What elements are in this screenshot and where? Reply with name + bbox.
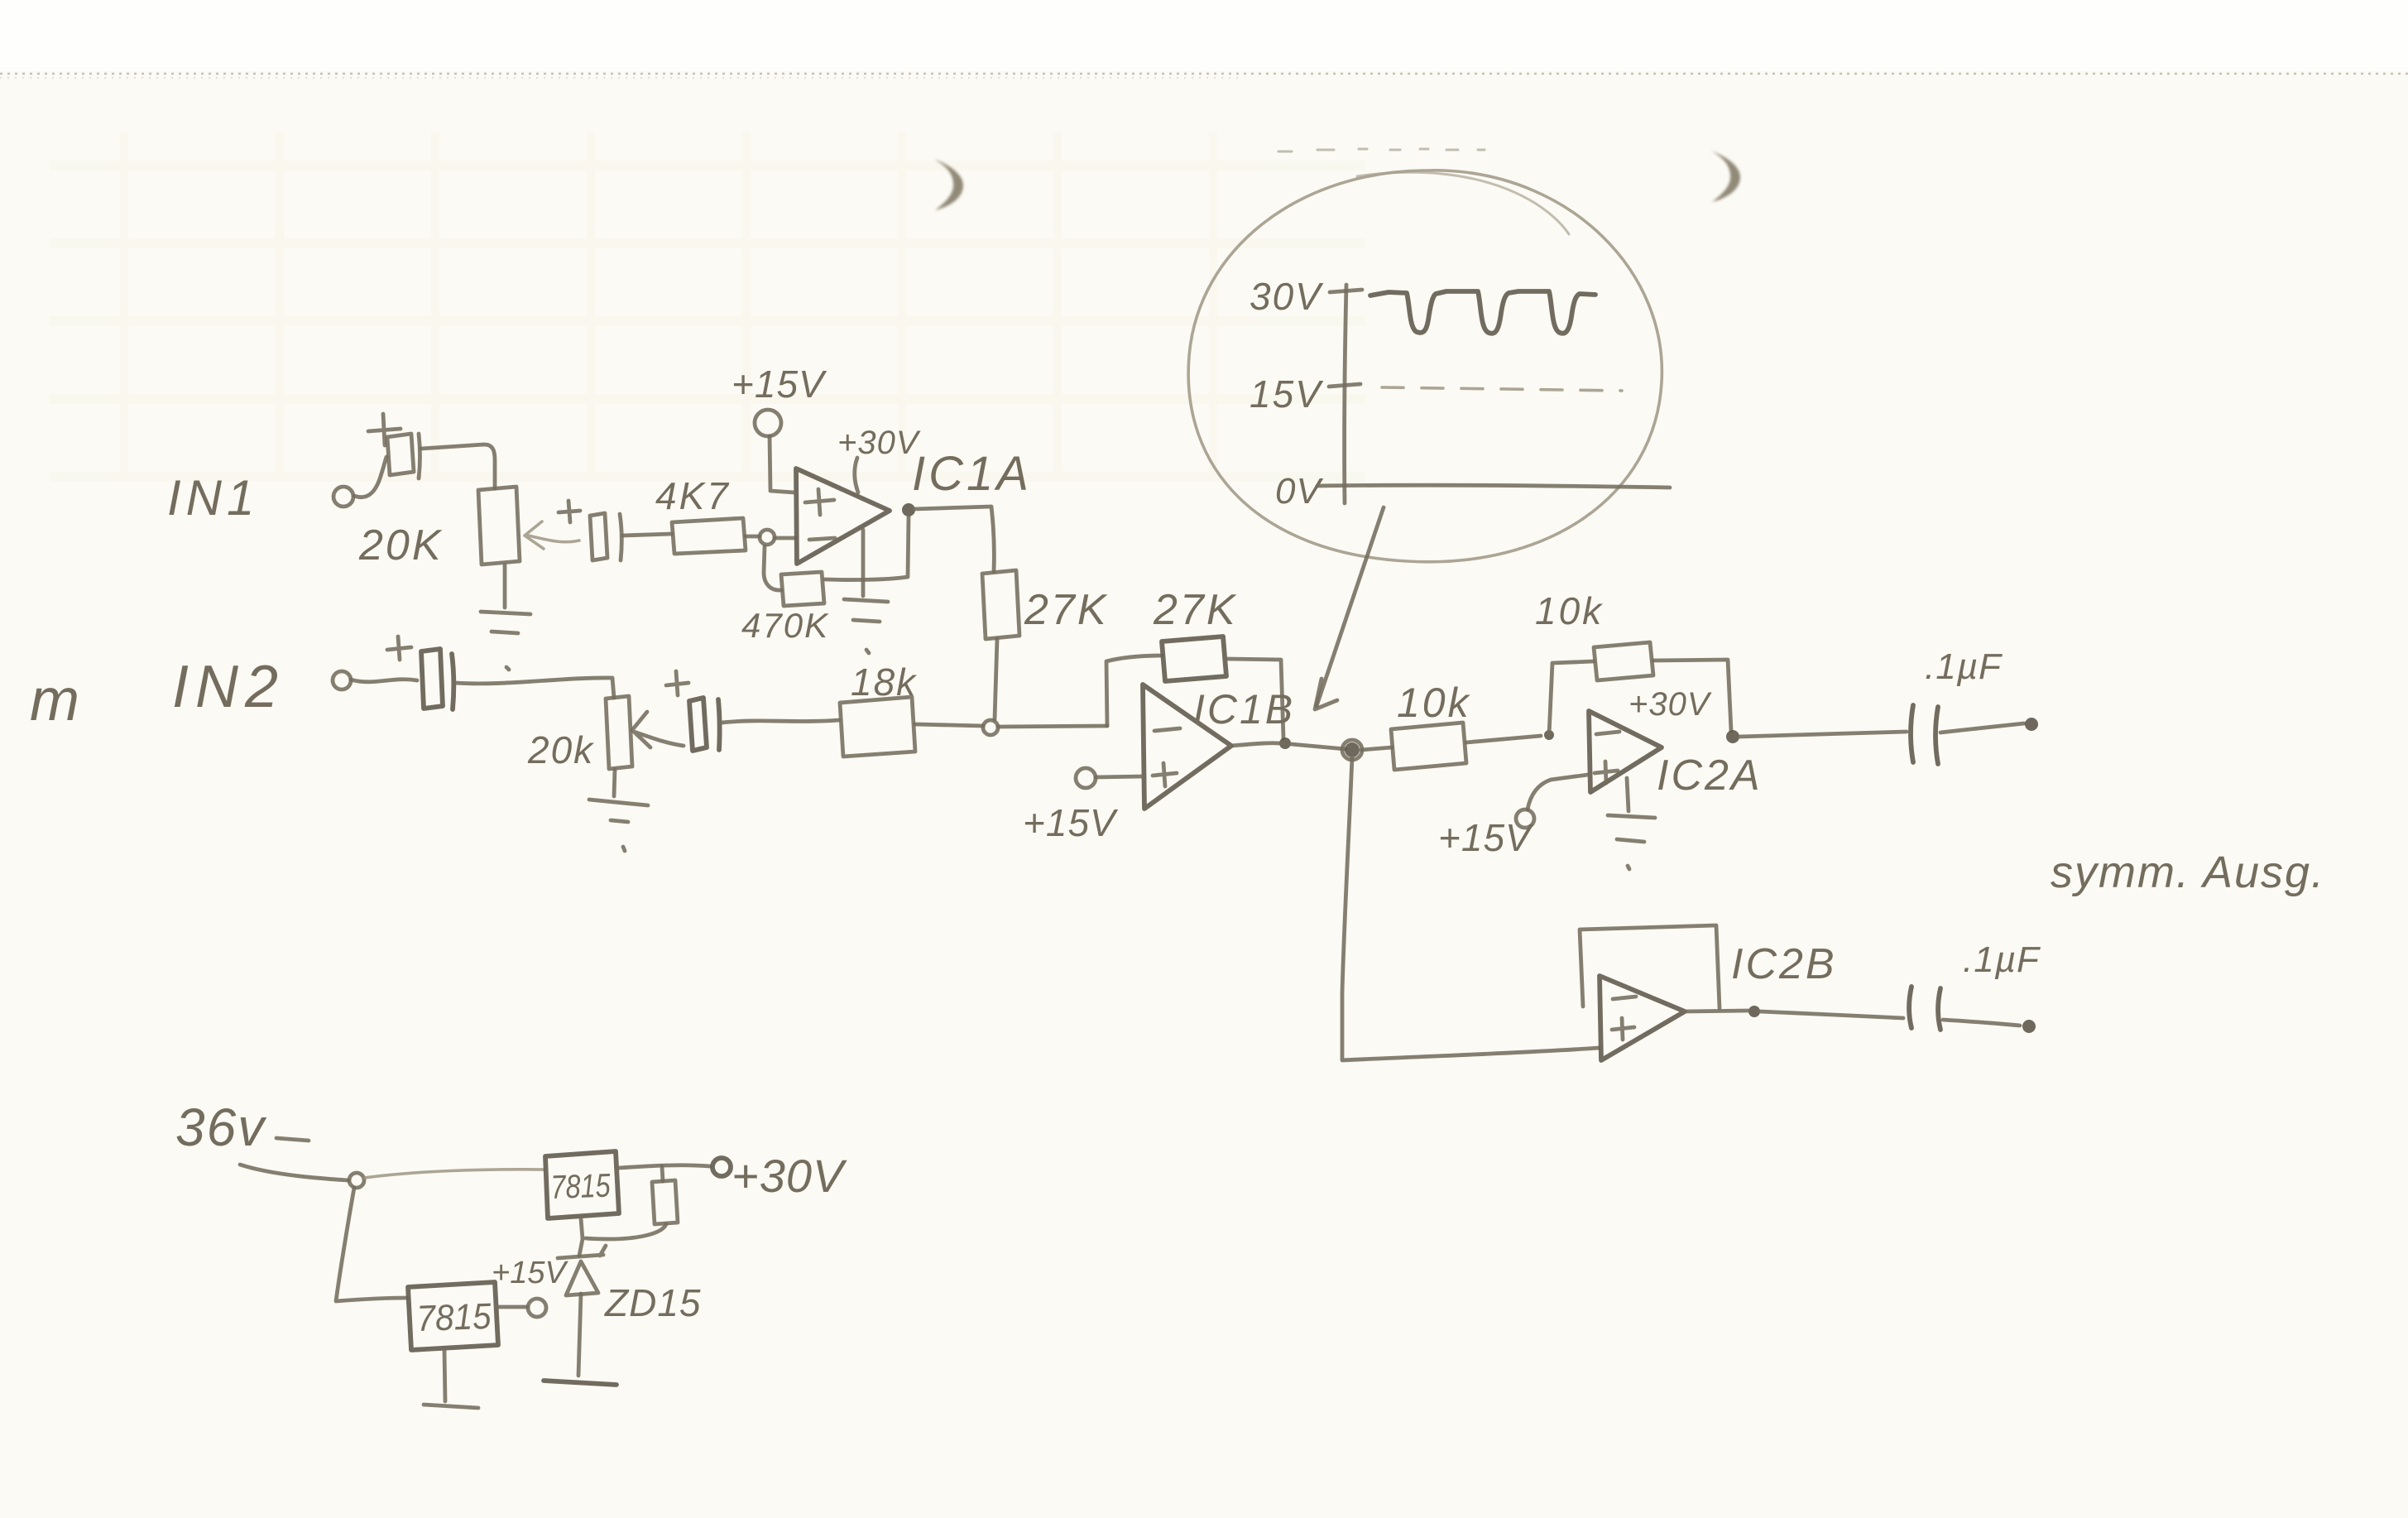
svg-text:4K7: 4K7 xyxy=(655,474,731,517)
+30V terminal xyxy=(712,1158,731,1176)
wire C4 to 18k xyxy=(722,720,839,723)
ground below IC2A xyxy=(1608,778,1655,869)
ground below P2 xyxy=(589,770,648,851)
resistor in 7815 ground lift xyxy=(652,1180,678,1224)
IC2B output node xyxy=(1748,1006,1760,1017)
wire node to 7815 no.1 xyxy=(364,1170,544,1178)
capacitor C1 plus sign xyxy=(368,414,401,445)
ground below P1 xyxy=(481,565,530,670)
wire +15V to IC1A xyxy=(770,436,794,492)
right punch hole xyxy=(1711,151,1740,202)
capacitor C4 xyxy=(689,698,720,751)
IC2A output node xyxy=(1726,730,1739,743)
IC1A minus input sign xyxy=(809,538,835,540)
wire 18k to summing node xyxy=(915,724,983,726)
svg-text:.1µF: .1µF xyxy=(1963,939,2041,980)
resistor 4K7 xyxy=(672,518,746,554)
svg-text:IN1: IN1 xyxy=(167,470,259,526)
svg-text:27K: 27K xyxy=(1153,586,1238,634)
7815 no.1 ground pin xyxy=(579,1218,583,1256)
op-amp IC2B xyxy=(1600,976,1685,1060)
PSU input node xyxy=(349,1173,364,1188)
wire 7815 no.1 to +30V terminal xyxy=(619,1165,710,1168)
IC2B feedback loop xyxy=(1580,925,1720,1008)
0V baseline xyxy=(1317,485,1670,488)
wire node to 10k xyxy=(1361,747,1392,750)
op-amp IC1A xyxy=(796,468,890,564)
svg-text:0V: 0V xyxy=(1275,471,1323,512)
wire 10k to IC2A xyxy=(1466,736,1541,742)
wire IN2 jack to cap xyxy=(351,680,417,682)
svg-text:30V: 30V xyxy=(1250,275,1324,318)
input jack IN2 terminal xyxy=(333,671,351,689)
wire 4K7 to inverting node xyxy=(746,535,760,539)
potentiometer P1 20K body xyxy=(478,487,520,564)
resistor 27K vertical xyxy=(982,570,1019,639)
IC2A plus input sign xyxy=(1595,761,1618,783)
regulator 7815 no.2 xyxy=(408,1282,498,1350)
IC1B plus input sign xyxy=(1153,763,1177,786)
svg-text:18k: 18k xyxy=(851,661,917,704)
svg-text:+15V: +15V xyxy=(732,363,827,406)
capacitor C4 plus sign xyxy=(666,671,688,695)
svg-text:10k: 10k xyxy=(1535,589,1604,632)
feedback resistor 27K IC1B xyxy=(1162,637,1226,681)
wire 7815 no.2 to +15V terminal xyxy=(498,1305,527,1309)
svg-text:470K: 470K xyxy=(741,606,829,645)
wire 36V to input node xyxy=(240,1165,348,1180)
svg-text:ZD15: ZD15 xyxy=(604,1281,701,1324)
wire main node down to IC2B xyxy=(1342,757,1599,1060)
15V dashed mean line xyxy=(1382,387,1622,391)
branch down to resistor xyxy=(662,1166,663,1181)
svg-text:36v: 36v xyxy=(175,1098,267,1157)
svg-text:IN2: IN2 xyxy=(172,654,285,720)
svg-text:IC2B: IC2B xyxy=(1731,940,1837,988)
svg-text:27K: 27K xyxy=(1024,586,1109,634)
wire +15V to IC1B plus input xyxy=(1096,776,1143,777)
P1 wiper arrow xyxy=(525,521,579,549)
IC1A plus input sign xyxy=(805,489,834,515)
+30V tick stroke xyxy=(855,458,858,492)
wire input node down to 7815 no.2 xyxy=(336,1188,407,1301)
wire C2 to 4K7 xyxy=(623,534,672,536)
waveform balloon (annotation circle) xyxy=(1188,171,1662,562)
wire 470K to inverting node xyxy=(764,546,781,590)
feedback leg from output xyxy=(825,516,909,580)
svg-text:IC2A: IC2A xyxy=(1657,752,1763,800)
wire IN1 jack to cap xyxy=(354,457,386,497)
svg-text:symm. Ausg.: symm. Ausg. xyxy=(2051,848,2325,897)
regulator 7815 no.1 xyxy=(545,1151,619,1218)
ground below 7815 no.2 xyxy=(424,1350,478,1408)
wire cap to output terminal upper xyxy=(1940,723,2024,733)
annotation arrow to node xyxy=(1317,507,1384,706)
P2 wiper arrow xyxy=(632,712,684,747)
output capacitor .1uF upper xyxy=(1911,705,1938,764)
faint graph-paper show-through xyxy=(50,132,1365,480)
left punch hole xyxy=(934,159,963,210)
svg-text:+15V: +15V xyxy=(492,1256,568,1290)
wire IC1B output to main node xyxy=(1231,743,1346,749)
output terminal dot upper xyxy=(2025,718,2038,731)
zener ZD15 xyxy=(558,1246,606,1258)
waveform axis xyxy=(1345,285,1346,503)
wire feedback to output xyxy=(1226,659,1283,738)
IC2B plus input sign xyxy=(1612,1018,1634,1040)
capacitor C3 xyxy=(421,649,453,709)
+15V terminal PSU xyxy=(528,1299,546,1317)
IC2B minus input sign xyxy=(1613,997,1636,999)
36V tilde stroke xyxy=(276,1138,309,1141)
output capacitor .1uF lower xyxy=(1909,987,1940,1030)
+15V terminal IC2A xyxy=(1516,809,1534,828)
wire feedback to output xyxy=(1653,660,1731,731)
wire 27K down to summing node xyxy=(995,639,997,719)
IC2A minus input sign xyxy=(1596,732,1619,734)
wire node to IC1A xyxy=(775,536,795,540)
svg-text:IC1B: IC1B xyxy=(1193,686,1295,733)
output terminal dot lower xyxy=(2022,1020,2036,1033)
node at IC1A inverting input xyxy=(760,530,775,545)
wire cap to output terminal lower xyxy=(1943,1020,2020,1026)
ground below zener xyxy=(544,1381,616,1385)
summing node circle xyxy=(983,720,998,735)
wire C1 to pot top xyxy=(421,444,495,488)
feedback resistor 10k IC2A xyxy=(1594,642,1653,680)
svg-text:+30V: +30V xyxy=(1629,686,1712,723)
svg-text:7815: 7815 xyxy=(550,1167,612,1206)
main output node xyxy=(1345,742,1360,757)
ground below IC1A xyxy=(844,530,888,653)
wire IC2B output to cap xyxy=(1685,1011,1903,1018)
faint pencil dashes top centre xyxy=(1278,149,1485,151)
wire IC2A output to cap xyxy=(1739,732,1907,737)
svg-text:m: m xyxy=(30,667,81,733)
capacitor C3 plus sign xyxy=(387,637,411,660)
ripple waveform trace xyxy=(1370,291,1595,334)
svg-text:20K: 20K xyxy=(358,521,444,569)
svg-text:+15V: +15V xyxy=(1023,801,1119,844)
wire C3 to P2 xyxy=(455,678,614,698)
wire IC1A output to 27K xyxy=(914,507,994,571)
svg-text:.1µF: .1µF xyxy=(1925,646,2003,687)
axis tick 30V xyxy=(1330,290,1362,292)
perforation dotted line xyxy=(0,73,2408,75)
svg-text:20k: 20k xyxy=(527,728,594,771)
svg-text:+30V: +30V xyxy=(732,1150,847,1202)
op-amp IC1B xyxy=(1143,685,1231,809)
capacitor C1 xyxy=(387,434,420,478)
wire +15V to IC2A plus input xyxy=(1528,775,1588,809)
svg-text:10k: 10k xyxy=(1397,680,1471,726)
svg-text:+30V: +30V xyxy=(837,425,921,461)
svg-text:+15V: +15V xyxy=(1438,816,1534,859)
node feedback/output xyxy=(1279,737,1291,749)
capacitor C2 xyxy=(590,513,621,560)
resistor 10k series xyxy=(1391,723,1466,770)
potentiometer P2 20k body xyxy=(606,696,632,769)
svg-text:IC1A: IC1A xyxy=(912,447,1032,501)
svg-text:15V: 15V xyxy=(1250,372,1324,416)
wire resistor to ground-pin junction xyxy=(586,1224,666,1239)
axis tick 15V xyxy=(1329,384,1360,387)
input jack IN1 terminal xyxy=(333,487,353,507)
IC1A output node xyxy=(902,503,915,516)
IC2A feedback left leg xyxy=(1549,661,1594,735)
capacitor C2 plus sign xyxy=(559,501,580,522)
resistor 18k xyxy=(840,697,915,757)
svg-text:7815: 7815 xyxy=(416,1296,492,1339)
IC1B feedback left leg xyxy=(1106,656,1162,726)
node at IC2A inverting input xyxy=(1544,730,1554,740)
op-amp IC2A xyxy=(1589,711,1662,792)
wire summing node to IC1B xyxy=(998,726,1107,727)
IC1B minus input sign xyxy=(1154,728,1180,731)
+15V terminal IC1B xyxy=(1076,768,1096,788)
feedback resistor 470K xyxy=(781,572,824,606)
